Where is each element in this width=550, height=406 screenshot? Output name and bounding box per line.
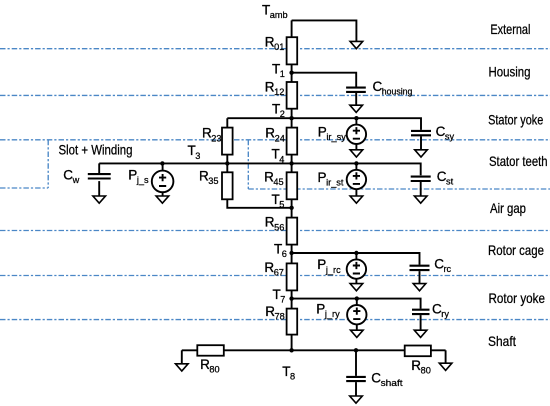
wire C_st to ground (420, 182, 422, 196)
svg-text:01: 01 (274, 42, 284, 52)
ground arrow C_w (93, 196, 106, 203)
svg-text:Rotor yoke: Rotor yoke (489, 290, 546, 306)
wire T_8 bus right end to ground (445, 350, 447, 363)
wire T_8 bus left end to ground (181, 350, 183, 364)
svg-text:Stator teeth: Stator teeth (489, 153, 548, 169)
capacitor C_ry plates (412, 310, 430, 314)
ground arrow P_ir_st (350, 196, 363, 203)
svg-text:shaft: shaft (381, 378, 403, 388)
svg-text:78: 78 (275, 312, 285, 322)
wire C_housing to ground (355, 93, 357, 106)
current source P_j_rc circle (347, 259, 366, 278)
node dot T_8 (289, 348, 293, 352)
ground arrow P_ir_sy (350, 150, 363, 157)
svg-text:housing: housing (382, 87, 413, 97)
ground arrow C_housing (350, 105, 363, 112)
current source P_j_s circle (152, 171, 174, 193)
ground arrow C_ry (414, 330, 427, 337)
svg-text:12: 12 (274, 87, 284, 97)
ground arrow C_shaft (350, 396, 363, 403)
svg-text:Air gap: Air gap (490, 200, 526, 216)
svg-text:7: 7 (280, 295, 285, 305)
layer boundary Rotor cage/Rotor yoke (0, 275, 550, 277)
layer boundary Air gap/Rotor cage (0, 230, 550, 232)
ground arrow ambient top (350, 41, 363, 48)
svg-text:sy: sy (445, 132, 455, 142)
current source P_ir_sy circle (347, 125, 366, 144)
ground arrow T_8 left (176, 364, 189, 371)
resistor R_67 (287, 263, 298, 290)
wire C_shaft stem top (355, 350, 357, 376)
ground arrow P_j_ry (351, 330, 364, 337)
capacitor C_shaft plates (346, 377, 366, 381)
svg-text:ir_sy: ir_sy (326, 132, 346, 142)
wire T_7 bus (292, 299, 421, 309)
wire P_ir_st stem top (355, 163, 357, 170)
layer boundary Stator teeth/Air gap left segment (0, 187, 48, 189)
wire T_3 T_4 bus (99, 163, 421, 175)
plus minus marks P_j_s (159, 174, 166, 186)
node dot T_2 (289, 116, 293, 120)
node dot T_3 (225, 161, 229, 165)
svg-text:80: 80 (421, 366, 431, 376)
wire C_ry to ground (420, 315, 422, 331)
ground arrow C_rc (413, 284, 426, 291)
svg-text:6: 6 (282, 249, 287, 259)
slot winding boundary vertical left (47, 140, 49, 188)
svg-text:80: 80 (209, 365, 219, 375)
node dot P_ir_sy branch (354, 116, 358, 120)
resistor R_24 (287, 128, 298, 155)
svg-text:56: 56 (274, 222, 284, 232)
svg-text:Shaft: Shaft (488, 333, 516, 349)
wire C_sy to ground (420, 136, 422, 150)
capacitor C_sy plates (411, 131, 431, 135)
svg-text:j_s: j_s (136, 175, 149, 185)
svg-text:23: 23 (211, 133, 221, 143)
wire P_j_s stem top (162, 163, 164, 170)
svg-text:Slot + Winding: Slot + Winding (59, 143, 133, 158)
svg-text:ir_st: ir_st (326, 178, 344, 188)
current source P_ir_st circle (347, 170, 366, 189)
svg-text:j_rc: j_rc (325, 265, 341, 275)
resistor R_12 (287, 82, 298, 109)
capacitor C_housing plates (346, 88, 366, 92)
wire P_ir_sy stem top (355, 118, 357, 125)
resistor R_23 (222, 128, 233, 155)
svg-text:4: 4 (279, 154, 284, 164)
node dot T_5 (289, 206, 293, 210)
wire C_rc to ground (419, 271, 421, 284)
resistor R_80 left (197, 345, 224, 356)
svg-text:ry: ry (441, 309, 449, 319)
wire P_ir_st stem bottom to ground (355, 189, 357, 196)
resistor R_35 (222, 172, 233, 199)
svg-text:3: 3 (195, 151, 200, 161)
svg-text:67: 67 (274, 268, 284, 278)
svg-text:External: External (490, 21, 530, 37)
svg-text:j_ry: j_ry (324, 309, 340, 319)
resistor R_45 (287, 172, 298, 199)
node dot T_6 (289, 251, 293, 255)
plus minus marks P_j_ry (353, 308, 360, 320)
node dot C_shaft branch (354, 348, 358, 352)
ground arrow P_j_rc (350, 284, 363, 291)
resistor R_80 right (405, 346, 431, 357)
wire P_j_s stem bottom to ground (162, 192, 164, 196)
svg-text:5: 5 (279, 200, 284, 210)
svg-text:amb: amb (270, 10, 288, 20)
node dot P_j_rc branch (354, 251, 358, 255)
plus minus marks P_j_rc (353, 262, 360, 274)
svg-text:Rotor cage: Rotor cage (488, 242, 544, 258)
svg-text:2: 2 (280, 109, 285, 119)
svg-text:45: 45 (273, 177, 283, 187)
layer boundary Rotor yoke/Shaft (0, 319, 550, 321)
svg-text:1: 1 (280, 69, 285, 79)
wire C_shaft stem bottom to ground (355, 382, 357, 396)
ground arrow P_j_s (156, 196, 169, 203)
layer boundary Stator yoke/Stator teeth (0, 139, 550, 141)
plus minus marks P_ir_sy (353, 127, 360, 139)
resistor R_01 (287, 37, 298, 64)
wire T_8 bus (182, 349, 446, 351)
svg-text:24: 24 (275, 133, 285, 143)
wire main chain vertical T_amb to T_8 (291, 20, 293, 350)
wire C_w to ground (98, 181, 100, 196)
wire P_j_ry stem top (356, 299, 358, 306)
node dot T_7 (289, 296, 293, 300)
wire T_amb branch to ambient ground (292, 20, 357, 41)
node dot T_1 (289, 71, 293, 75)
wire P_ir_sy stem bottom to ground (355, 144, 357, 150)
current source P_j_ry circle (347, 305, 366, 324)
wire P_j_ry stem bottom to ground (356, 324, 358, 330)
ground arrow C_st (414, 196, 427, 203)
wire P_j_rc stem bottom to ground (355, 279, 357, 284)
node dot P_j_s branch (160, 161, 164, 165)
capacitor C_rc plates (410, 266, 430, 270)
capacitor C_w plates (88, 174, 111, 178)
wire T_2 bus (227, 118, 421, 130)
node dot T_4 (289, 161, 293, 165)
svg-text:rc: rc (444, 264, 452, 274)
wire T_1 to C_housing branch (292, 73, 357, 87)
svg-text:w: w (72, 175, 80, 185)
layer boundary External/Housing (0, 48, 550, 50)
capacitor C_st plates (411, 177, 431, 181)
plus minus marks P_ir_st (353, 172, 360, 184)
slot winding boundary vertical right (247, 140, 249, 189)
resistor R_56 (287, 218, 298, 245)
svg-text:Housing: Housing (489, 63, 531, 79)
node dot P_ir_st branch (354, 161, 358, 165)
resistor R_78 (287, 309, 298, 335)
svg-text:35: 35 (208, 176, 218, 186)
ground arrow C_sy (415, 150, 428, 157)
node dot P_j_ry branch (355, 296, 359, 300)
svg-text:st: st (446, 177, 454, 187)
layer boundary Housing/Stator yoke (0, 94, 550, 96)
wire T_6 bus (292, 253, 420, 265)
wire left branch R_23 R_35 vertical (227, 118, 291, 208)
wire P_j_rc stem top (355, 253, 357, 260)
ground arrow T_8 right (439, 363, 452, 370)
svg-text:Stator yoke: Stator yoke (488, 112, 543, 128)
layer boundary Stator teeth/Air gap right segment (248, 188, 550, 190)
svg-text:8: 8 (290, 372, 295, 382)
